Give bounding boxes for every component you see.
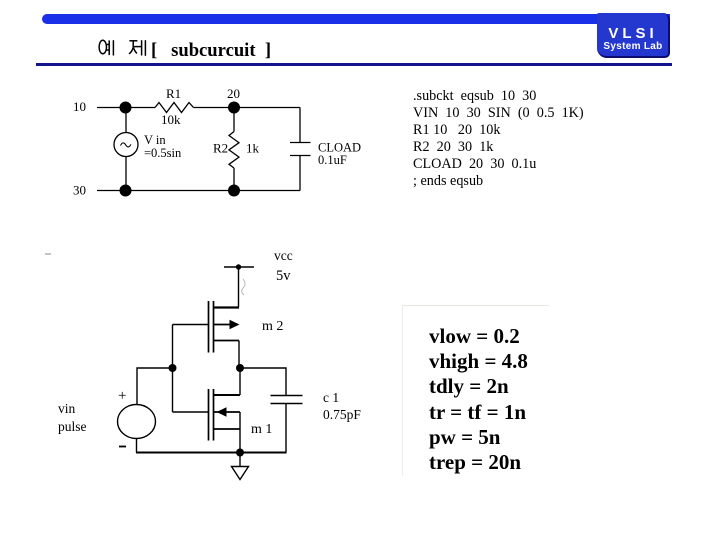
resistor R2 lead bottom	[233, 168, 235, 191]
hangul 예	[99, 40, 113, 55]
svg-text:5v: 5v	[276, 268, 291, 284]
wire m1 gate stub	[173, 411, 209, 413]
vcc junction dot	[236, 264, 241, 269]
voltage source Vin lead bottom	[125, 157, 127, 191]
faint squiggle artifact	[242, 279, 245, 295]
transistor M1 (NMOS)	[209, 389, 241, 441]
ground rail wire	[136, 452, 287, 454]
wire vin to gate rail	[137, 368, 173, 405]
voltage source vin circle	[118, 405, 156, 439]
resistor R2 zigzag	[229, 132, 239, 168]
logo text VLSI	[597, 26, 669, 41]
voltage source Vin circle	[114, 133, 138, 157]
junction dot gate/vin	[169, 364, 177, 372]
capacitor c1 lead bottom	[285, 404, 287, 453]
capacitor c1 bottom plate	[271, 403, 303, 405]
capacitor CLOAD top plate	[290, 142, 311, 144]
tilde inside Vin	[121, 143, 131, 147]
junction dot output node	[236, 364, 244, 372]
junction dot node 30 left	[120, 185, 132, 197]
wire R1 to node 20	[194, 107, 301, 109]
parameters text block	[429, 324, 528, 475]
header blue bar	[42, 14, 670, 24]
navy rule under title	[36, 63, 672, 66]
svg-text:0.75pF: 0.75pF	[323, 407, 361, 422]
stray mark artifact	[45, 253, 51, 255]
svg-text:m 1: m 1	[251, 422, 272, 437]
wire top right corner to capacitor	[299, 108, 301, 143]
svg-text:c 1: c 1	[323, 390, 339, 405]
bottom wire node 30	[97, 190, 300, 192]
gate rail wire	[172, 325, 174, 413]
wire m1 source down to rail	[239, 412, 241, 453]
wire node10 to R1	[97, 107, 155, 109]
svg-text:m 2: m 2	[262, 319, 283, 334]
title text [ subcurcuit ]	[151, 40, 271, 62]
ground symbol	[232, 453, 249, 480]
svg-text:+: +	[118, 388, 126, 404]
svg-text:pulse: pulse	[58, 419, 87, 434]
netlist text block	[413, 88, 584, 191]
wire vcc to m2 drain	[238, 267, 240, 308]
junction dot node 30 right	[228, 185, 240, 197]
resistor R1 zigzag	[155, 103, 194, 113]
wire m2 gate stub	[173, 324, 209, 326]
minus sign	[119, 446, 126, 448]
capacitor c1 top plate	[271, 395, 303, 397]
faint box behind parameter text	[402, 305, 549, 476]
wire output node to m1 drain	[239, 368, 241, 395]
hangul 제	[129, 40, 145, 56]
svg-text:vcc: vcc	[274, 248, 293, 263]
svg-text:vin: vin	[58, 401, 76, 416]
vcc supply bar	[224, 266, 254, 268]
wire m2 source to output node	[238, 341, 240, 369]
transistor M2 (PMOS)	[209, 301, 240, 353]
junction dot node 20	[228, 102, 240, 114]
voltage source Vin lead top	[125, 108, 127, 133]
capacitor CLOAD bottom plate	[290, 155, 311, 157]
wire output node to capacitor c1	[240, 368, 286, 396]
junction dot ground node	[236, 449, 244, 457]
VLSI System Lab logo box	[597, 13, 670, 58]
wire vin bottom	[136, 439, 138, 453]
junction dot node 10	[120, 102, 132, 114]
logo text System Lab	[597, 42, 669, 52]
capacitor CLOAD lead bottom	[299, 156, 301, 191]
resistor R2 lead top	[233, 108, 235, 132]
